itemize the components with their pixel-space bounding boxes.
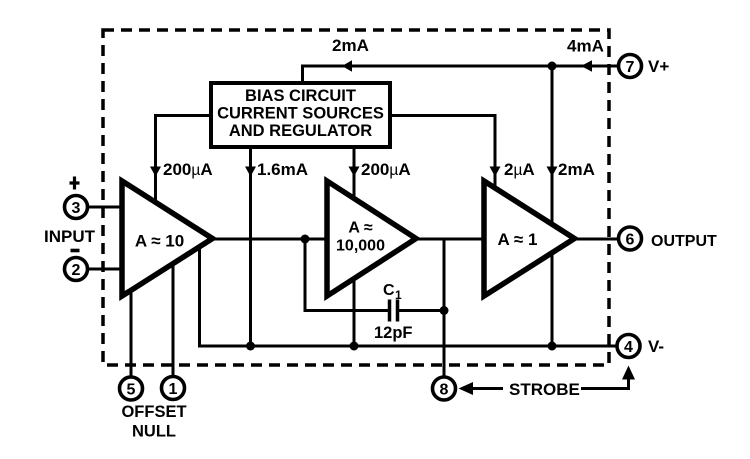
pin 6 circle — [619, 227, 642, 250]
svg-text:7: 7 — [626, 59, 635, 76]
svg-text:NULL: NULL — [132, 423, 176, 441]
svg-text:V+: V+ — [648, 57, 669, 76]
svg-text:C: C — [383, 282, 395, 299]
svg-text:2µA: 2µA — [504, 160, 535, 179]
pin 3 circle — [65, 196, 88, 219]
svg-text:OFFSET: OFFSET — [121, 403, 186, 421]
node junction 2mA/V- — [548, 342, 557, 351]
svg-text:2mA: 2mA — [332, 36, 369, 55]
svg-text:12pF: 12pF — [374, 324, 413, 342]
wire pin1 to stage1 — [172, 263, 175, 376]
svg-text:5: 5 — [127, 382, 136, 399]
pin 1 circle — [162, 377, 185, 400]
node junction C1/pin8 — [440, 306, 449, 315]
svg-text:10,000: 10,000 — [336, 238, 385, 255]
svg-text:4mA: 4mA — [567, 37, 604, 56]
pin 4 circle — [617, 335, 640, 358]
wire pin8 vertical to stage2 output — [443, 239, 446, 377]
pin 7 circle — [619, 55, 642, 78]
svg-text:V-: V- — [648, 337, 664, 356]
wire pin3 to first stage — [87, 206, 124, 209]
svg-text:4: 4 — [624, 339, 633, 356]
label plus input — [70, 177, 80, 190]
dashed IC boundary — [103, 30, 609, 365]
wire bias box right to 2uA source — [391, 116, 495, 191]
wire arrowhead 2mA pointing left — [342, 60, 352, 71]
op-amp stage2 A=10000 — [327, 181, 416, 296]
wire arrowhead 4mA pointing left — [581, 60, 592, 71]
svg-text:1: 1 — [395, 288, 402, 302]
wire 1.6mA sink from bias box to V- rail — [249, 148, 252, 346]
wire strobe right segment to pin4 — [581, 378, 629, 390]
svg-text:A ≈: A ≈ — [348, 220, 372, 237]
arrowhead 1.6mA — [245, 167, 256, 177]
node junction V+ rail top — [548, 62, 557, 71]
svg-text:8: 8 — [440, 382, 449, 399]
wire stage3 output to pin6 — [572, 238, 619, 241]
svg-text:A ≈ 10: A ≈ 10 — [135, 232, 184, 251]
svg-text:2mA: 2mA — [558, 160, 595, 179]
node junction 1.6mA/V- — [246, 342, 255, 351]
svg-text:2: 2 — [72, 262, 81, 279]
capacitor C1 plates — [390, 300, 398, 322]
pin 8 circle — [433, 377, 456, 400]
label minus input — [71, 249, 80, 253]
wire C1 right to pin8 node — [398, 309, 445, 312]
op-amp stage3 A=1 — [484, 181, 575, 296]
wire stage1 to V- rail and V- rail to pin4 — [200, 246, 618, 346]
wire V+ rail vertical 2mA down to V- rail — [551, 66, 554, 346]
wire pin7 to V+ rail — [552, 65, 619, 68]
svg-text:A ≈ 1: A ≈ 1 — [498, 230, 538, 249]
svg-text:BIAS CIRCUIT: BIAS CIRCUIT — [245, 87, 356, 105]
svg-text:200µA: 200µA — [361, 160, 411, 179]
wire pin5 to stage1 — [130, 289, 133, 377]
wire compensation down to C1 — [305, 239, 389, 311]
svg-text:STROBE: STROBE — [509, 380, 580, 399]
pin 5 circle — [120, 377, 143, 400]
node junction stage2/V- — [350, 342, 359, 351]
svg-text:OUTPUT: OUTPUT — [651, 233, 717, 250]
svg-text:1: 1 — [169, 381, 178, 398]
wire top 2mA from bias box to V+ rail — [303, 66, 553, 82]
node junction compensation tap — [301, 235, 310, 244]
wire bias box left to 200uA source — [156, 116, 211, 204]
arrowhead 200uA left — [150, 167, 161, 177]
wire stage1 output to stage2 — [211, 238, 328, 241]
wire stage2 bottom to V- rail — [353, 280, 356, 346]
svg-text:INPUT: INPUT — [44, 227, 96, 246]
wire pin2 to first stage — [87, 268, 124, 271]
wire 200uA source to second stage — [353, 148, 356, 200]
svg-text:200µA: 200µA — [163, 160, 213, 179]
strobe arrowhead at pin8 — [459, 382, 474, 395]
svg-text:3: 3 — [72, 200, 81, 217]
bias circuit box — [211, 83, 390, 147]
wire stage2 output to stage3 — [416, 238, 485, 241]
op-amp stage1 A=10 — [122, 181, 213, 296]
arrowhead 2mA rail — [547, 167, 558, 177]
arrowhead 2uA — [490, 167, 501, 177]
strobe arrowhead up at pin4 — [622, 366, 635, 380]
pin 2 circle — [65, 258, 88, 281]
svg-text:AND REGULATOR: AND REGULATOR — [229, 122, 372, 140]
arrowhead 200uA mid — [349, 167, 360, 177]
wire strobe left segment — [472, 387, 503, 390]
svg-text:6: 6 — [626, 232, 635, 249]
svg-text:CURRENT SOURCES: CURRENT SOURCES — [217, 105, 384, 123]
svg-text:1.6mA: 1.6mA — [257, 160, 308, 179]
